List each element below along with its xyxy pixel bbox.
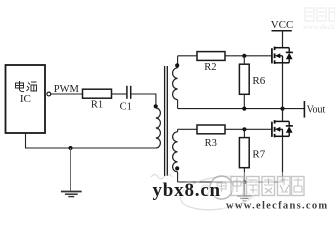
transformer core (165, 66, 168, 176)
wire Q2 source to ground rail (282, 136, 284, 182)
wire PWM to R1 (51, 93, 83, 95)
node ground junction right (242, 180, 246, 184)
node secondary2 polarity dot (175, 166, 179, 170)
wire secondary1 top to rail (177, 56, 179, 68)
resistor R2 (197, 52, 225, 73)
wire ground rail right (178, 181, 283, 183)
node R6 bottom junction (242, 107, 246, 111)
wire gate rail 1 (178, 55, 272, 57)
node junction R3 R7 gate (242, 127, 246, 131)
transistor Q2 low-side MOSFET (272, 109, 293, 138)
svg-text:www.elecfans.com: www.elecfans.com (226, 200, 328, 211)
svg-text:PWM: PWM (54, 84, 80, 95)
node source drain junction (280, 107, 284, 111)
watermark wash (222, 172, 335, 212)
wire R1 to C1 (112, 93, 127, 95)
wire secondary1 bottom to Vout rail (177, 100, 179, 109)
svg-text:R2: R2 (204, 62, 216, 73)
wire gate rail 2 (178, 128, 272, 130)
inductor secondary winding 1 (173, 68, 178, 100)
watermark logo circle (210, 176, 233, 199)
svg-text:VCC: VCC (271, 19, 294, 31)
svg-text:ybx8.cn: ybx8.cn (153, 180, 221, 201)
node primary polarity dot (154, 104, 158, 108)
inductor primary winding (156, 108, 161, 148)
power VCC (271, 19, 294, 48)
svg-text:www.elecfans: www.elecfans (303, 23, 335, 31)
terminal Vout (304, 101, 325, 118)
wire secondary2 top to rail (177, 129, 179, 132)
svg-text:R7: R7 (252, 149, 265, 161)
capacitor C1 (120, 86, 132, 113)
wire secondary2 bottom to ground rail (177, 172, 179, 182)
watermark elecfans glyphs (231, 177, 304, 196)
node ground junction left (69, 146, 73, 150)
ground left (61, 148, 82, 197)
ground right (237, 182, 251, 201)
wire primary bottom to IC ground (26, 133, 156, 148)
svg-text:R1: R1 (91, 100, 103, 111)
resistor R3 (197, 125, 225, 149)
wire Vout rail (178, 108, 305, 110)
node junction R2 R6 gate (242, 54, 246, 58)
resistor R1 (83, 89, 112, 110)
svg-text:C1: C1 (120, 102, 132, 113)
wire C1 to primary winding top (131, 94, 156, 106)
watermark faint top right (303, 8, 335, 31)
transistor Q1 high-side MOSFET (272, 47, 293, 64)
resistor R6 (239, 56, 265, 109)
inductor secondary winding 2 (173, 132, 178, 172)
svg-text:Vout: Vout (307, 105, 326, 116)
node secondary1 polarity dot (175, 63, 179, 67)
watermark swirl (151, 172, 260, 215)
IC U1 power IC box (6, 65, 46, 133)
svg-text:IC: IC (20, 93, 31, 105)
resistor R7 (239, 129, 265, 182)
node PWM output pin (47, 84, 80, 96)
wire Q1 source to Vout rail (282, 63, 284, 109)
svg-text:R6: R6 (252, 75, 265, 87)
svg-text:R3: R3 (205, 138, 217, 149)
